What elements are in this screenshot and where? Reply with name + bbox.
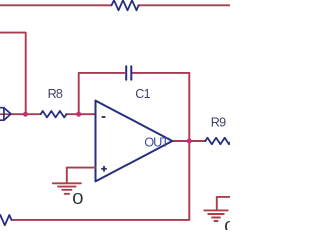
svg-text:R9: R9 xyxy=(211,115,226,129)
svg-text:0: 0 xyxy=(224,218,230,230)
svg-text:0: 0 xyxy=(72,190,83,208)
svg-text:C1: C1 xyxy=(135,87,150,101)
svg-text:R8: R8 xyxy=(48,87,63,101)
svg-text:OUT: OUT xyxy=(144,135,169,150)
